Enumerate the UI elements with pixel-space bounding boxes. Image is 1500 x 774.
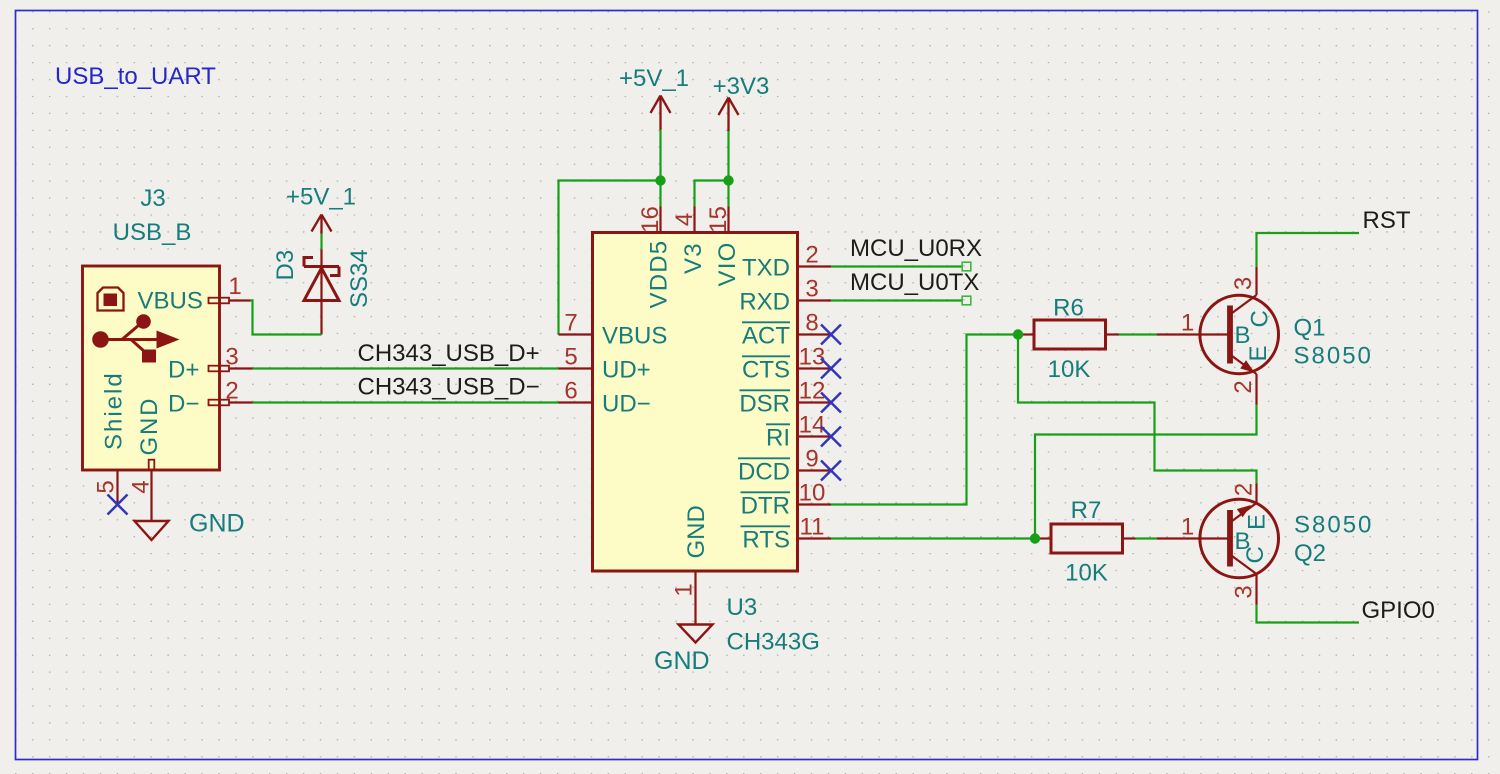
svg-text:3: 3 [1230,277,1257,290]
U3 pin 1 GND [683,505,710,624]
wire Q1 emitter to R7 node [1035,405,1257,539]
transistor Q2 S8050 [1157,484,1278,605]
svg-text:R6: R6 [1053,295,1084,322]
svg-text:U3: U3 [727,594,758,621]
svg-text:5: 5 [93,480,120,493]
J3 pin 1 VBUS [138,288,251,315]
U3 pin 10 DTR [741,492,832,519]
U3 pin 3 RXD [739,289,831,316]
svg-text:GPIO0: GPIO0 [1362,597,1435,624]
U3 pin 12 DSR [739,390,831,417]
svg-text:10K: 10K [1065,560,1108,587]
U3 pin 15 VIO [714,207,741,287]
power symbol +5V_1 at D3 [312,215,332,234]
svg-text:12: 12 [799,378,826,405]
svg-text:D−: D− [168,391,199,418]
U3 pin 9 DCD [738,458,831,485]
svg-text:1: 1 [228,273,241,300]
svg-text:RXD: RXD [739,289,790,316]
U3 pin 4 V3 [680,207,707,275]
junction at R7 input node [1030,533,1040,543]
ground symbol at J3 pin 4 [135,521,169,540]
no-connect X on J3 pin 5 [108,495,128,515]
svg-text:DTR: DTR [741,493,790,520]
power symbol +3V3 above U3 [719,98,739,132]
U3 pin 8 ACT [742,322,831,349]
svg-text:C: C [1242,546,1269,563]
svg-text:3: 3 [1231,585,1258,598]
svg-text:11: 11 [800,514,825,541]
J3 pin 2 D- [168,391,253,418]
wire RXD to MCU_U0TX [831,299,962,301]
U3 pin 16 VDD5 [646,207,673,309]
diode D3 SS34 schottky [304,250,339,335]
wire DTR to R6 node [831,335,1018,505]
svg-text:13: 13 [799,344,826,371]
svg-text:D3: D3 [272,250,299,281]
svg-text:USB_to_UART: USB_to_UART [55,63,216,90]
junction at +3V3 node [723,175,733,185]
svg-text:8: 8 [805,310,818,337]
svg-text:7: 7 [564,310,577,337]
svg-text:R7: R7 [1071,497,1102,524]
svg-text:10K: 10K [1048,356,1091,383]
wire +3V3 branch to V3 pin [695,181,729,207]
J3 USB-B port icon [98,288,124,311]
svg-text:2: 2 [805,242,818,269]
svg-text:15: 15 [705,206,732,233]
resistor R6 [1018,320,1119,349]
svg-text:10: 10 [799,480,826,507]
svg-text:1: 1 [1181,514,1194,541]
svg-text:S8050: S8050 [1294,512,1373,539]
svg-text:SS34: SS34 [346,249,373,308]
svg-text:1: 1 [671,583,698,596]
svg-text:Q1: Q1 [1294,315,1326,342]
svg-text:ACT: ACT [742,323,790,350]
svg-text:+3V3: +3V3 [713,73,770,100]
svg-text:VBUS: VBUS [138,288,203,315]
svg-text:D+: D+ [168,357,199,384]
J3 USB trident icon [92,314,179,362]
svg-text:CH343_USB_D+: CH343_USB_D+ [358,340,540,367]
no-connect X on U3 pin 12 [821,393,841,413]
svg-text:3: 3 [225,344,238,371]
svg-text:MCU_U0TX: MCU_U0TX [850,269,979,296]
net label anchor square MCU_U0TX [962,296,971,305]
svg-text:TXD: TXD [742,255,790,282]
svg-text:VDD5: VDD5 [646,240,673,309]
svg-text:+5V_1: +5V_1 [619,65,689,92]
svg-text:MCU_U0RX: MCU_U0RX [850,235,982,262]
svg-text:16: 16 [637,206,664,233]
svg-text:9: 9 [805,446,818,473]
U3 pin 7 VBUS [559,323,668,350]
svg-text:VIO: VIO [714,242,741,287]
svg-text:VBUS: VBUS [602,323,667,350]
wire R6 to Q1 base [1119,333,1157,335]
svg-text:6: 6 [564,378,577,405]
wire +3V3 to VIO [727,131,729,207]
transistor Q1 S8050 [1157,267,1278,405]
svg-text:S8050: S8050 [1294,343,1373,370]
svg-text:4: 4 [128,480,155,493]
U3 pin 13 CTS [742,356,831,383]
svg-text:2: 2 [225,378,238,405]
svg-text:CH343_USB_D−: CH343_USB_D− [358,374,540,401]
svg-text:2: 2 [1230,380,1257,393]
power symbol +5V_1 above U3 [651,96,671,130]
svg-text:GND: GND [136,397,163,456]
wire R6 node to Q2 emitter [1018,335,1257,484]
svg-text:Q2: Q2 [1294,540,1326,567]
U3 pin 6 UD- [559,391,651,418]
svg-text:J3: J3 [140,185,165,212]
IC U3 CH343G body [593,233,798,572]
U3 pin 2 TXD [742,255,831,282]
no-connect X on U3 pin 8 [821,325,841,345]
ground symbol at U3 pin 1 [679,625,713,643]
wire R7 to Q2 base [1136,537,1158,539]
svg-text:RTS: RTS [742,527,790,554]
U3 pin 5 UD+ [559,357,651,384]
wire RTS to R7 node [831,537,1035,539]
wire +5V_1 to VDD5 [659,130,661,207]
wire +5V_1 to D3 cathode [320,234,322,251]
wire +5V_1 branch to VBUS pin [559,181,661,335]
svg-text:USB_B: USB_B [113,219,192,246]
svg-text:E: E [1245,345,1272,361]
resistor R7 [1035,524,1136,553]
svg-text:3: 3 [805,276,818,303]
connector J3 body [83,266,220,470]
J3 pin 5 Shield [101,371,128,503]
wire J3 VBUS to D3 anode [251,301,322,335]
no-connect X on U3 pin 14 [821,427,841,447]
svg-text:5: 5 [564,344,577,371]
U3 pin 11 RTS [741,526,832,553]
U3 pin 14 RI [766,424,831,451]
svg-text:DCD: DCD [738,459,790,486]
svg-text:CH343G: CH343G [727,629,820,656]
svg-text:Shield: Shield [101,371,128,450]
svg-text:GND: GND [683,505,710,558]
svg-text:UD+: UD+ [602,357,651,384]
net label anchor square MCU_U0RX [962,262,971,271]
wire TXD to MCU_U0RX [831,265,962,267]
svg-text:RST: RST [1363,207,1411,234]
wire Q2 collector to GPIO0 [1257,605,1360,623]
J3 pin 3 D+ [168,357,253,384]
wire CH343_USB_D+ net [253,367,559,369]
svg-text:V3: V3 [680,242,707,274]
no-connect X on U3 pin 9 [821,461,841,481]
no-connect X on U3 pin 13 [821,359,841,379]
svg-text:GND: GND [189,510,245,538]
J3 pin 4 GND [136,397,163,521]
svg-text:CTS: CTS [742,357,790,384]
svg-text:14: 14 [799,412,826,439]
svg-text:1: 1 [1181,310,1194,337]
svg-text:+5V_1: +5V_1 [286,184,356,211]
svg-text:UD−: UD− [602,391,651,418]
svg-text:4: 4 [671,213,698,226]
junction at R6 input node [1013,329,1023,339]
wire CH343_USB_D- net [253,401,559,403]
svg-text:C: C [1247,310,1274,327]
wire Q1 collector to RST [1257,233,1360,267]
junction at +5V_1 node [655,175,665,185]
svg-text:GND: GND [654,647,710,675]
svg-text:2: 2 [1231,483,1258,496]
svg-text:RI: RI [766,425,790,452]
svg-text:DSR: DSR [739,391,790,418]
